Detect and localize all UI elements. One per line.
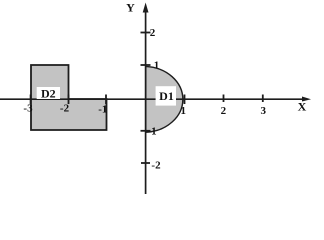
tick x=-1 xyxy=(105,95,107,105)
svg-text:-2: -2 xyxy=(60,103,70,115)
tick x=-2 xyxy=(68,95,70,105)
svg-text:-2: -2 xyxy=(151,160,161,172)
svg-text:-3: -3 xyxy=(23,103,33,115)
x axis arrowhead xyxy=(302,97,311,102)
region D2 (L-shaped shaded area) xyxy=(31,65,107,130)
svg-text:2: 2 xyxy=(150,27,156,39)
svg-text:D2: D2 xyxy=(41,87,56,101)
tick y=2 xyxy=(141,32,151,34)
svg-text:3: 3 xyxy=(260,105,266,117)
svg-text:1: 1 xyxy=(181,105,187,117)
svg-text:X: X xyxy=(298,99,307,113)
svg-text:D1: D1 xyxy=(159,89,174,103)
tick x=3 xyxy=(262,95,264,103)
svg-text:-1: -1 xyxy=(147,126,156,138)
tick x=1 xyxy=(184,95,186,105)
tick x=-3 xyxy=(30,95,32,105)
tick y=-1 xyxy=(141,130,151,132)
svg-text:2: 2 xyxy=(221,105,227,117)
tick y=1 xyxy=(141,64,151,66)
region D1 (right half-disk) xyxy=(146,66,183,132)
label box D1 xyxy=(156,86,176,105)
label box D2 xyxy=(37,87,60,99)
svg-text:1: 1 xyxy=(154,60,160,72)
x axis xyxy=(0,98,304,100)
svg-text:-1: -1 xyxy=(98,104,107,116)
svg-text:Y: Y xyxy=(126,1,135,15)
tick y=-2 xyxy=(141,162,150,164)
y axis arrowhead xyxy=(143,3,149,13)
y axis xyxy=(145,10,147,194)
tick x=2 xyxy=(223,95,225,103)
